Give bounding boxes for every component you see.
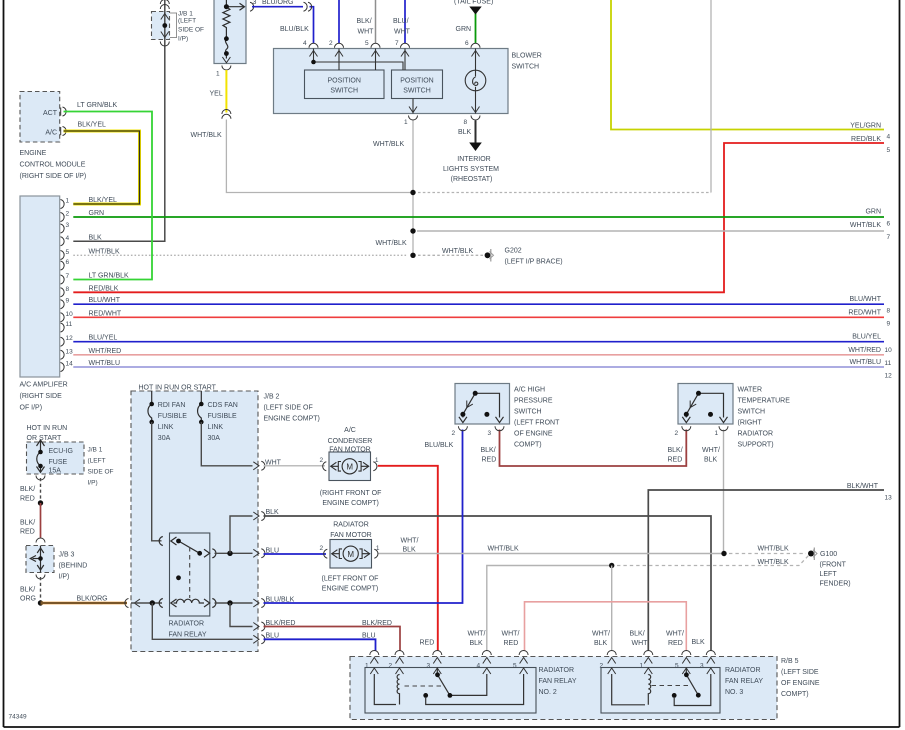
label J/B 1 (fuse)	[88, 447, 114, 487]
wire WHT/BLU amplifier pin 14 to connector 12	[73, 366, 884, 368]
svg-text:12: 12	[66, 335, 74, 342]
svg-text:2: 2	[320, 457, 324, 464]
svg-text:1: 1	[216, 71, 220, 78]
right edge connector numbers	[885, 134, 893, 502]
svg-text:1: 1	[640, 662, 644, 669]
svg-text:ACT: ACT	[43, 110, 58, 117]
svg-text:J/B 1: J/B 1	[88, 447, 103, 454]
svg-text:WHT/: WHT/	[592, 631, 610, 638]
wire BLK from J/B2 to relay no.3 pin 3	[264, 516, 712, 651]
J/B1 internal arrows and junction	[161, 14, 169, 38]
svg-text:A/C HIGH: A/C HIGH	[514, 387, 545, 394]
wire GRN from TAIL FUSE arrow to blower switch pin 6	[475, 12, 477, 44]
svg-text:BLK: BLK	[692, 639, 706, 646]
blower switch internal pin arrows (bottom)	[409, 107, 480, 113]
J/B3 bottom connector arc	[36, 575, 45, 579]
water temperature switch internals	[682, 393, 727, 422]
label A/C HIGH PRESSURE SWITCH	[514, 387, 560, 449]
svg-text:8: 8	[464, 119, 468, 126]
svg-text:RED: RED	[482, 457, 497, 464]
svg-text:WHT/BLK: WHT/BLK	[373, 141, 404, 148]
svg-text:BLU/WHT: BLU/WHT	[850, 296, 882, 303]
svg-text:FAN MOTOR: FAN MOTOR	[330, 532, 371, 539]
svg-text:BLU/ORG: BLU/ORG	[262, 0, 294, 6]
svg-text:(LEFT FRONT OF: (LEFT FRONT OF	[322, 576, 379, 583]
svg-text:11: 11	[885, 360, 892, 367]
A/C high pressure switch internals	[459, 393, 504, 422]
relay no.3 switch pivot dot	[684, 672, 689, 677]
svg-text:2: 2	[389, 662, 393, 669]
thermal fuse squiggle	[225, 39, 227, 59]
wire BLU to radiator fan motor pin 2	[264, 553, 327, 555]
svg-text:2: 2	[452, 430, 456, 437]
svg-text:BLK: BLK	[266, 509, 280, 516]
water temp switch pin numbers	[675, 430, 719, 437]
svg-text:WHT/BLK: WHT/BLK	[758, 559, 789, 566]
dashed wire BLK/ORG below J/B3	[40, 577, 42, 601]
TAIL FUSE feed arrow	[469, 7, 481, 15]
label INTERIOR LIGHTS SYSTEM (RHEOSTAT)	[443, 156, 499, 183]
relay no.3 open contact dot	[672, 693, 677, 698]
relay no.2 pin connector stack (pins 1,2,3,4,5)	[370, 651, 528, 675]
svg-text:BLK/WHT: BLK/WHT	[847, 483, 879, 490]
svg-text:BLU/BLK: BLU/BLK	[425, 442, 454, 449]
svg-text:BLK: BLK	[458, 129, 472, 136]
svg-text:6: 6	[465, 40, 469, 47]
blower switch pin numbers top	[303, 40, 469, 47]
svg-text:J/B 1: J/B 1	[178, 11, 193, 18]
position switch 2 (blower switch internal)	[392, 70, 443, 99]
wire WHT/BLK from resistor to junction under blower switch	[226, 120, 413, 193]
svg-text:WHT: WHT	[632, 640, 649, 647]
labels BLK/RED	[20, 486, 35, 536]
svg-text:ENGINE COMPT): ENGINE COMPT)	[322, 586, 378, 593]
wire WHT/BLK from radiator fan motor pin 1 to G100 junction	[378, 553, 724, 555]
relay switch arm tip dot	[197, 551, 202, 556]
svg-text:LT GRN/BLK: LT GRN/BLK	[89, 273, 130, 280]
radiator fan relay box (inside J/B 2)	[170, 533, 210, 616]
svg-text:CONDENSER: CONDENSER	[328, 438, 373, 445]
wire BLK/RED linking pressure switch pin 3 and water temp switch pin 2	[500, 430, 687, 467]
svg-text:WHT/RED: WHT/RED	[89, 348, 122, 355]
blower switch internal pin arrows (top)	[310, 51, 480, 57]
svg-text:I/P): I/P)	[59, 574, 70, 581]
label RADIATOR FAN RELAY NO. 3	[725, 667, 763, 696]
svg-text:30A: 30A	[208, 435, 221, 442]
junction dot inside J/B 3	[38, 556, 43, 561]
RDI fusible link top dot	[149, 402, 154, 407]
wire J/B1 feed down to A/C amplifier pin 4 (BLK)	[73, 0, 165, 241]
svg-text:(LEFT: (LEFT	[88, 458, 106, 465]
svg-text:WHT/: WHT/	[502, 631, 520, 638]
label J/B 2	[264, 394, 320, 423]
label WATER TEMPERATURE SWITCH	[738, 387, 791, 449]
wire BLK/RED from J/B2 to relay no.2 pin 2	[264, 627, 401, 652]
label (LEFT FRONT OF ENGINE COMPT)	[322, 576, 379, 593]
ECM pin names	[43, 110, 58, 137]
svg-text:BLK/RED: BLK/RED	[266, 620, 296, 627]
svg-text:GRN: GRN	[456, 26, 472, 33]
wire BLU/YEL amplifier pin 12 to connector 10	[73, 341, 884, 343]
svg-text:BLU: BLU	[266, 548, 280, 555]
water temp switch open contact dot	[708, 412, 713, 417]
svg-text:6: 6	[887, 221, 891, 228]
svg-text:2: 2	[320, 545, 324, 552]
wire YEL from resistor pin 1	[225, 70, 227, 113]
relay no.2 switch pivot dot	[435, 672, 440, 677]
svg-text:WHT/BLK: WHT/BLK	[850, 222, 881, 229]
junction dot BLK/RED	[38, 500, 43, 505]
label RADIATOR FAN RELAY NO. 2	[539, 667, 577, 696]
svg-text:5: 5	[675, 662, 679, 669]
svg-text:(LEFT SIDE: (LEFT SIDE	[781, 669, 819, 676]
relay open contact dot	[176, 575, 181, 580]
svg-text:BLK/: BLK/	[20, 486, 35, 493]
svg-text:SWITCH: SWITCH	[512, 64, 540, 71]
radiator fan relay no. 3 box	[601, 668, 720, 714]
svg-text:BLK/: BLK/	[668, 447, 683, 454]
svg-text:OF ENGINE: OF ENGINE	[781, 680, 820, 687]
label R/B 5	[781, 658, 820, 698]
svg-text:FUSIBLE: FUSIBLE	[208, 413, 238, 420]
wire BLU/ORG from resistor pin 3 to blower switch pin 4	[252, 7, 314, 44]
svg-text:A/C AMPLIFER: A/C AMPLIFER	[20, 382, 68, 389]
svg-text:1: 1	[66, 198, 70, 205]
svg-text:SWITCH: SWITCH	[514, 409, 542, 416]
relay block R/B 5 dashed box (left side of engine compt)	[350, 657, 777, 720]
junction dot BLK/ORG	[38, 600, 43, 605]
svg-text:RED: RED	[668, 457, 683, 464]
CDS fan fusible link	[198, 391, 202, 422]
wire BLK/ORG to J/B 2	[41, 602, 128, 605]
blower switch bottom pin connector arcs	[409, 116, 481, 121]
svg-text:YEL/GRN: YEL/GRN	[850, 123, 881, 130]
svg-text:WHT/BLK: WHT/BLK	[758, 546, 789, 553]
label J/B 1 top	[178, 11, 204, 43]
relay coil	[159, 599, 216, 608]
ground G100 symbol	[808, 548, 817, 561]
blower resistor internal: feed line and pin 3 arrow	[226, 0, 244, 10]
condenser motor connector arcs	[323, 462, 377, 471]
svg-text:13: 13	[66, 348, 74, 355]
label (RIGHT FRONT OF ENGINE COMPT)	[320, 490, 382, 507]
junction dot relay switch output	[227, 551, 232, 556]
wire BLU/WHT into blower switch pin 7	[404, 0, 406, 44]
svg-text:ORG: ORG	[20, 596, 36, 603]
svg-text:3: 3	[66, 222, 70, 229]
svg-text:FAN MOTOR: FAN MOTOR	[329, 447, 370, 454]
wire BLK/RED to J/B 3	[40, 503, 42, 538]
right edge wire labels	[847, 123, 882, 491]
svg-text:WHT: WHT	[265, 460, 282, 467]
interior lights system arrow	[469, 143, 482, 152]
svg-text:WHT/BLK: WHT/BLK	[488, 546, 519, 553]
svg-text:FAN RELAY: FAN RELAY	[725, 678, 763, 685]
svg-text:WHT/BLK: WHT/BLK	[376, 240, 407, 247]
svg-text:HOT IN RUN OR START: HOT IN RUN OR START	[139, 385, 217, 392]
svg-text:BLU: BLU	[266, 633, 280, 640]
svg-text:R/B 5: R/B 5	[781, 658, 799, 665]
wire from RDI link to radiator fan relay switch	[152, 422, 162, 541]
branch down to BLK/RED connector	[230, 603, 253, 627]
svg-text:1: 1	[715, 430, 719, 437]
position switch 1 (blower switch internal)	[305, 70, 385, 99]
dotted WHT/BLK from amplifier pin 5	[73, 254, 407, 256]
svg-text:WHT/: WHT/	[468, 631, 486, 638]
svg-text:BLK/: BLK/	[481, 447, 496, 454]
wire RED/WHT amplifier pin 10 to connector 9	[73, 316, 884, 318]
label ECU-IG FUSE 15A	[49, 448, 74, 475]
svg-text:15A: 15A	[49, 468, 62, 475]
junction block J/B 2 dashed box (left side of engine compt)	[131, 391, 258, 652]
water temp switch pivot dot	[696, 391, 701, 396]
svg-text:1: 1	[404, 119, 408, 126]
ECM pin arcs	[61, 107, 66, 136]
svg-text:BLU/YEL: BLU/YEL	[852, 334, 881, 341]
svg-text:WHT/BLK: WHT/BLK	[191, 132, 222, 139]
svg-text:LT GRN/BLK: LT GRN/BLK	[77, 102, 118, 109]
ground G202 symbol	[485, 249, 494, 262]
svg-text:BLK: BLK	[704, 457, 718, 464]
svg-text:3: 3	[253, 0, 257, 6]
svg-text:5: 5	[365, 40, 369, 47]
svg-text:RED/WHT: RED/WHT	[89, 310, 122, 317]
svg-text:8: 8	[66, 286, 70, 293]
labels POSITION SWITCH	[327, 78, 433, 95]
wire WHT/RED amplifier pin 13 to connector 11	[73, 354, 884, 356]
svg-text:BLU/BLK: BLU/BLK	[266, 597, 295, 604]
svg-text:BLK/ORG: BLK/ORG	[77, 596, 108, 603]
wire LT GRN/BLK from ECM ACT to amplifier pin 7	[64, 112, 153, 280]
J/B2 right edge connectors (WHT, BLK, BLU motor, BLU/BLK, BLK/RED, BLU)	[253, 461, 265, 644]
label 3 BLU/ORG (clipped at top)	[253, 0, 294, 6]
svg-text:2: 2	[600, 662, 604, 669]
label RDI FAN FUSIBLE LINK 30A	[158, 402, 188, 442]
svg-text:RED: RED	[20, 529, 35, 536]
wire inside J/B2 from entry to relay coil	[131, 602, 162, 604]
engine control module connector box	[20, 92, 60, 143]
svg-text:LINK: LINK	[158, 424, 174, 431]
relay no.3 pin connector stack (pins 2,1,5,3)	[607, 651, 715, 675]
svg-text:BLK: BLK	[89, 234, 103, 241]
svg-text:SUPPORT): SUPPORT)	[738, 442, 774, 449]
condenser motor pin numbers	[320, 457, 379, 464]
label G202	[505, 248, 563, 266]
pressure switch pivot dot	[473, 391, 478, 396]
wire BLU/WHT amplifier pin 9 to connector 8	[73, 303, 884, 305]
resistor pin 1 connector arc	[222, 66, 231, 71]
svg-text:CDS FAN: CDS FAN	[208, 402, 238, 409]
pressure switch bottom connector arcs	[458, 426, 504, 431]
svg-text:FUSIBLE: FUSIBLE	[158, 413, 188, 420]
label WHT/ BLK motor pin1	[401, 538, 419, 554]
svg-text:SIDE OF: SIDE OF	[88, 469, 114, 476]
svg-text:GRN: GRN	[865, 209, 881, 216]
svg-text:A/C: A/C	[344, 427, 356, 434]
svg-text:RADIATOR: RADIATOR	[333, 522, 369, 529]
svg-text:BLU/BLK: BLU/BLK	[280, 26, 309, 33]
svg-text:BLK/: BLK/	[630, 631, 645, 638]
wire YEL/GRN to connector 4	[611, 0, 884, 130]
resistor pin 3 connector arc	[250, 2, 254, 11]
svg-text:TEMPERATURE: TEMPERATURE	[738, 398, 791, 405]
wire RED/BLK from amplifier pin 8 to connector 5	[73, 143, 884, 292]
svg-text:RDI FAN: RDI FAN	[158, 402, 186, 409]
svg-text:RED: RED	[420, 640, 435, 647]
A/C amplifier pin numbers	[66, 198, 74, 368]
svg-text:(LEFT: (LEFT	[178, 18, 196, 25]
svg-text:(RIGHT SIDE: (RIGHT SIDE	[20, 393, 63, 400]
svg-text:RADIATOR: RADIATOR	[738, 431, 774, 438]
svg-text:CONTROL MODULE: CONTROL MODULE	[20, 162, 86, 169]
svg-text:12: 12	[885, 373, 893, 380]
svg-text:YEL: YEL	[210, 91, 223, 98]
svg-text:5: 5	[66, 249, 70, 256]
label A/C CONDENSER FAN MOTOR	[328, 427, 373, 454]
svg-text:SWITCH: SWITCH	[330, 88, 358, 95]
svg-text:10: 10	[885, 347, 893, 354]
dashed WHT/BLK run from junction to vertical	[418, 192, 711, 194]
wire BLK/WHT from connector 13 to relay no.3 pin 1	[648, 490, 884, 651]
svg-text:(FRONT: (FRONT	[820, 562, 847, 569]
svg-text:OF ENGINE: OF ENGINE	[514, 431, 553, 438]
junction dot relay coil output	[227, 600, 232, 605]
radiator motor connector arcs	[324, 549, 378, 558]
junction dot resistor pin 3 branch	[224, 4, 229, 9]
blower switch pin numbers bottom	[404, 119, 468, 126]
svg-text:WHT/BLK: WHT/BLK	[89, 248, 120, 255]
label RADIATOR FAN MOTOR	[330, 522, 371, 540]
CDS fusible link bottom dot	[199, 420, 204, 425]
junction dot WHT/BLK ground run	[721, 551, 726, 556]
svg-text:RADIATOR: RADIATOR	[539, 667, 575, 674]
wire WHT to A/C condenser fan motor pin 2	[264, 465, 326, 467]
radiator fan motor box	[330, 540, 372, 569]
svg-text:WHT/RED: WHT/RED	[848, 347, 881, 354]
radiator fan relay no. 2 box	[365, 668, 536, 714]
relay switch output run to BLU connector	[215, 552, 253, 554]
svg-text:FUSE: FUSE	[49, 459, 68, 466]
svg-text:ENGINE COMPT): ENGINE COMPT)	[322, 500, 378, 507]
wire WHT/BLK from blower switch pin 1 down	[412, 121, 414, 256]
label G100	[820, 551, 851, 588]
junction block J/B 3 (behind I/P)	[26, 546, 54, 573]
label WHT/ BLK water temp pin1	[702, 447, 720, 464]
svg-text:BLK/YEL: BLK/YEL	[89, 197, 118, 204]
svg-text:WATER: WATER	[738, 387, 763, 394]
relay no.2 open contact dot	[423, 693, 428, 698]
relay no.3 pin numbers	[600, 662, 705, 669]
svg-text:J/B 3: J/B 3	[59, 552, 75, 559]
svg-text:4: 4	[303, 40, 307, 47]
label BLK/ RED water temp pin2	[668, 447, 683, 464]
wire GRN from amplifier pin 2 to connector 6	[73, 216, 884, 218]
svg-text:LEFT: LEFT	[820, 571, 838, 578]
svg-text:(BEHIND: (BEHIND	[59, 563, 88, 570]
relay no.2 arm tip dot	[448, 693, 453, 698]
svg-text:RED/BLK: RED/BLK	[851, 136, 881, 143]
svg-text:8: 8	[887, 308, 891, 315]
junction dots on blower pin 1 wire	[410, 190, 415, 195]
svg-text:13: 13	[885, 495, 893, 502]
svg-text:WHT/: WHT/	[702, 447, 720, 454]
svg-text:2: 2	[66, 211, 70, 218]
svg-text:WHT/: WHT/	[401, 538, 419, 545]
svg-text:RED/BLK: RED/BLK	[89, 285, 119, 292]
svg-text:RED: RED	[20, 496, 35, 503]
label A/C AMPLIFER	[20, 382, 68, 412]
CDS fusible link top dot	[199, 402, 204, 407]
svg-text:HOT IN RUN: HOT IN RUN	[27, 425, 68, 432]
relay coil output run to BLU/BLK connector	[215, 602, 253, 604]
svg-text:OR START: OR START	[27, 435, 62, 442]
label J/B 3	[59, 552, 88, 581]
svg-text:3: 3	[427, 662, 431, 669]
dashed wire BLK/RED below fuse	[40, 478, 42, 501]
water temp switch arm end dot	[684, 412, 689, 417]
ECU-IG fuse box (J/B 1)	[27, 442, 85, 474]
wire BLU/BLK from relay coil to A/C high pressure switch pin 2	[264, 430, 463, 604]
svg-text:RADIATOR: RADIATOR	[169, 621, 205, 628]
svg-text:NO. 2: NO. 2	[539, 689, 557, 696]
svg-text:FAN RELAY: FAN RELAY	[539, 678, 577, 685]
label BLU/WHT pin7	[393, 18, 411, 36]
connector arcs on J/B1 wire top	[160, 0, 169, 46]
svg-text:BLU: BLU	[362, 633, 376, 640]
svg-text:A/C: A/C	[45, 130, 57, 137]
A/C condenser fan motor box	[329, 452, 371, 481]
RDI fan fusible link	[148, 391, 152, 422]
svg-text:SWITCH: SWITCH	[738, 409, 766, 416]
svg-text:7: 7	[66, 273, 70, 280]
svg-text:9: 9	[66, 298, 70, 305]
radiator motor pin numbers	[320, 545, 380, 552]
label BLOWER SWITCH	[512, 53, 542, 71]
blower switch top pin connector arcs	[309, 43, 480, 48]
svg-text:BLK/: BLK/	[20, 520, 35, 527]
svg-text:(LEFT SIDE OF: (LEFT SIDE OF	[264, 405, 313, 412]
svg-text:4: 4	[66, 235, 70, 242]
svg-text:RED: RED	[668, 640, 683, 647]
pressure switch pin numbers	[452, 430, 492, 437]
svg-text:ECU-IG: ECU-IG	[49, 448, 74, 455]
svg-text:(TAIL FUSE): (TAIL FUSE)	[454, 0, 493, 6]
illumination lamp inside blower switch	[465, 70, 486, 91]
junction dot inside J/B 1	[162, 23, 167, 28]
svg-text:1: 1	[375, 457, 379, 464]
svg-text:BLOWER: BLOWER	[512, 53, 542, 60]
dashed WHT/BLK run joining G100	[617, 556, 809, 566]
wire RED from condenser motor pin 1 to relay no.2 pin 3	[378, 466, 438, 651]
svg-text:OF I/P): OF I/P)	[20, 405, 43, 412]
RDI fusible link bottom dot	[149, 420, 154, 425]
fuse element top dot	[38, 450, 43, 455]
svg-text:G202: G202	[505, 248, 522, 255]
svg-text:BLK/: BLK/	[357, 18, 372, 25]
svg-text:BLK/YEL: BLK/YEL	[78, 122, 107, 129]
A/C amplifier wire labels	[89, 197, 130, 367]
svg-text:4: 4	[887, 134, 891, 141]
wire WHT/BLK from junction to connector 7	[417, 230, 884, 232]
svg-text:POSITION: POSITION	[327, 78, 360, 85]
branch down to BLU connector	[152, 603, 252, 639]
blower switch	[274, 49, 509, 114]
svg-text:BLK/: BLK/	[20, 587, 35, 594]
svg-text:BLU/WHT: BLU/WHT	[89, 297, 121, 304]
branch up to BLK connector	[230, 516, 253, 553]
wire BLK from blower switch pin 8 to interior lights system	[475, 121, 477, 144]
svg-text:(RIGHT FRONT OF: (RIGHT FRONT OF	[320, 490, 382, 497]
